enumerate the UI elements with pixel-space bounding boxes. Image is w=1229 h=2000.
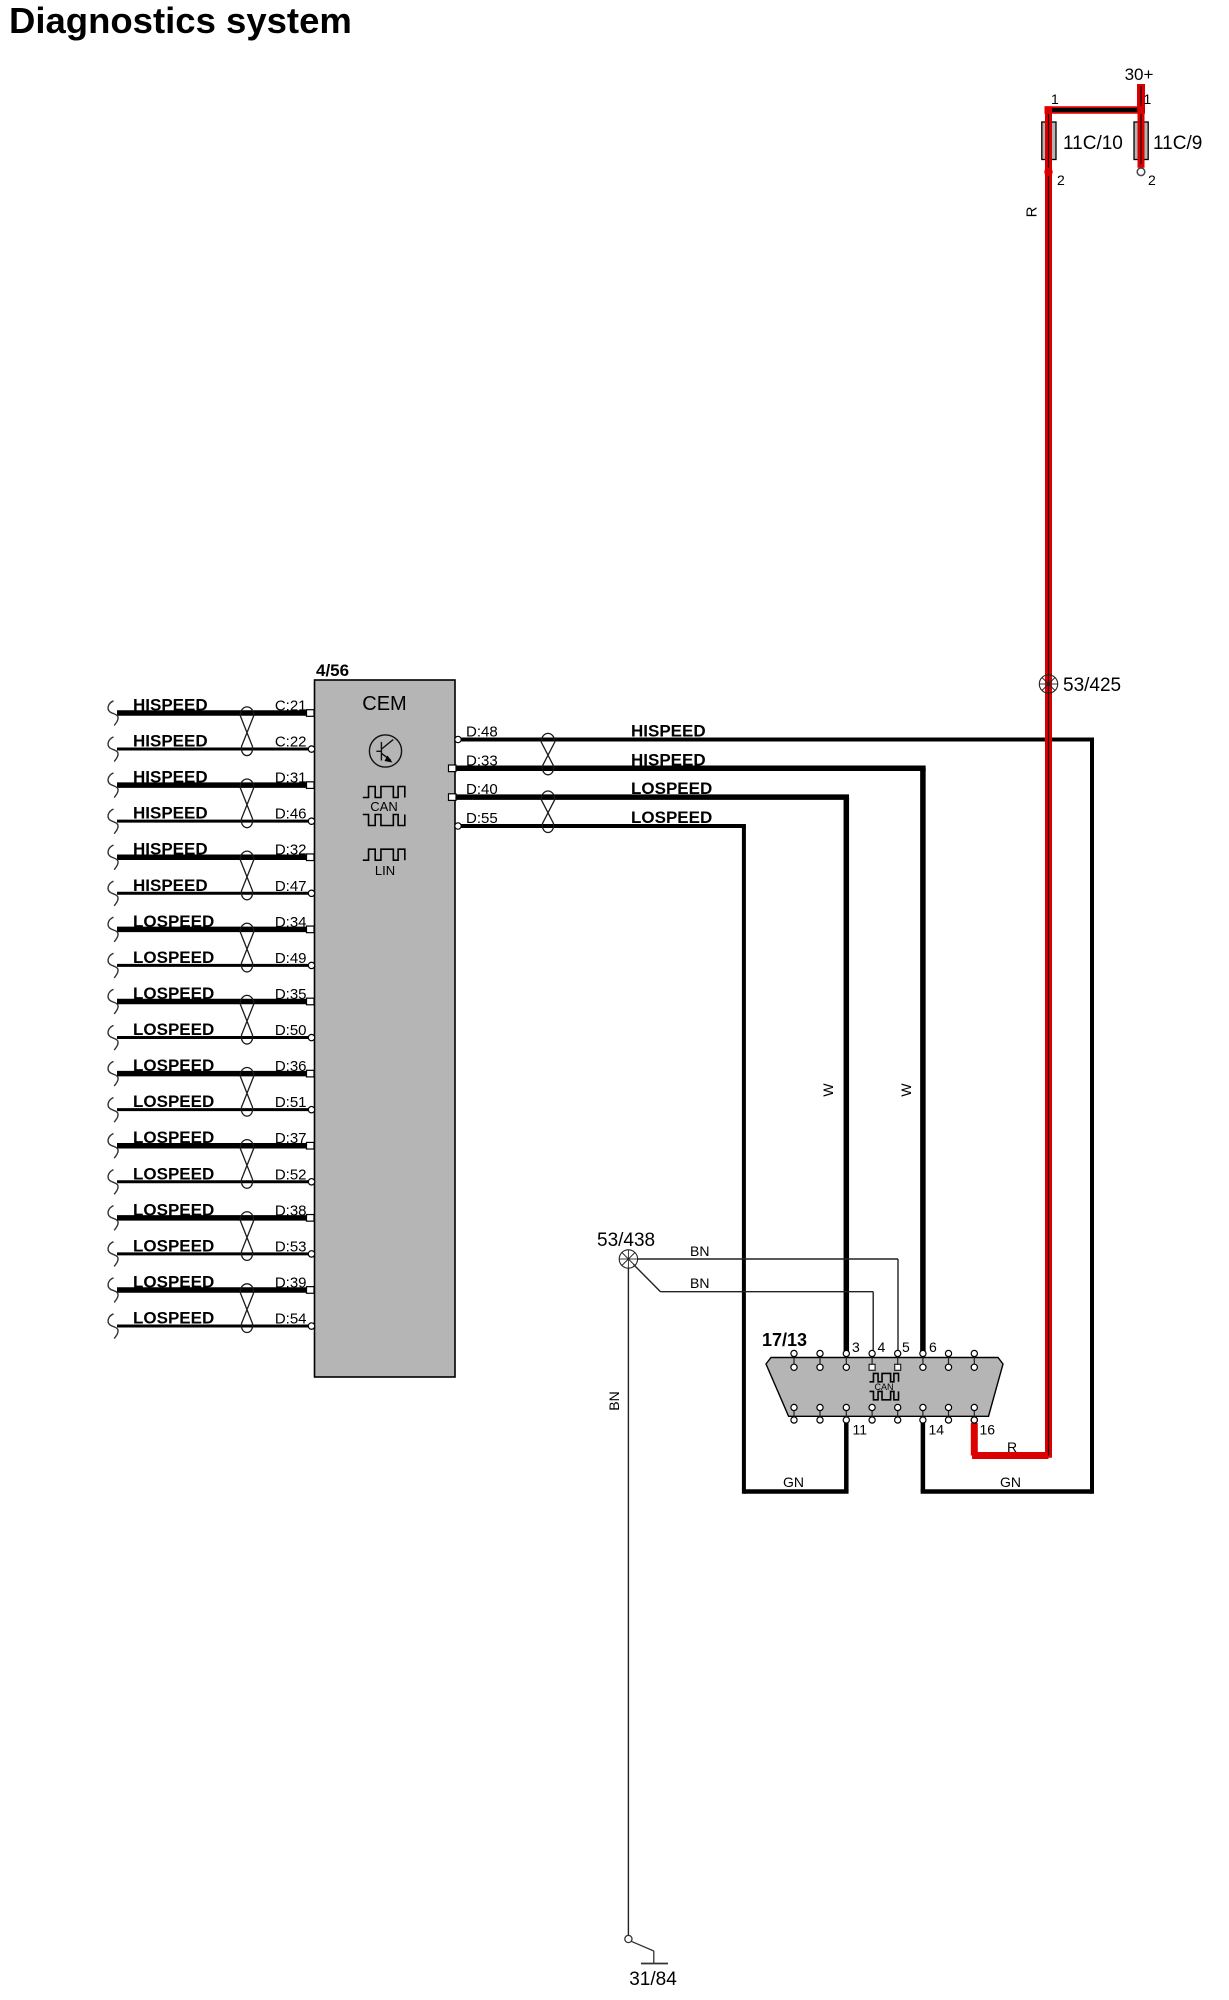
svg-text:LOSPEED: LOSPEED (133, 1164, 214, 1183)
svg-text:BN: BN (606, 1391, 622, 1410)
svg-text:HISPEED: HISPEED (133, 876, 208, 895)
svg-text:2: 2 (1148, 172, 1156, 188)
svg-text:D:48: D:48 (466, 724, 498, 741)
svg-text:HISPEED: HISPEED (133, 732, 208, 751)
svg-text:11C/10: 11C/10 (1063, 133, 1123, 154)
svg-text:HISPEED: HISPEED (133, 696, 208, 715)
svg-text:R: R (1024, 206, 1041, 217)
svg-text:CAN: CAN (370, 799, 397, 814)
svg-text:1: 1 (1051, 91, 1059, 107)
svg-text:CAN: CAN (874, 1382, 893, 1392)
svg-text:LOSPEED: LOSPEED (133, 1309, 214, 1328)
svg-text:CEM: CEM (362, 693, 406, 715)
svg-text:6: 6 (929, 1339, 937, 1355)
svg-text:GN: GN (783, 1474, 804, 1490)
svg-text:LOSPEED: LOSPEED (133, 1128, 214, 1147)
svg-text:1: 1 (1144, 91, 1152, 107)
svg-text:D:55: D:55 (466, 810, 498, 827)
svg-text:BN: BN (690, 1275, 709, 1291)
svg-text:Diagnostics system: Diagnostics system (9, 0, 352, 41)
svg-text:D:31: D:31 (275, 770, 307, 787)
svg-text:D:40: D:40 (466, 781, 498, 798)
svg-text:16: 16 (980, 1422, 996, 1438)
svg-text:HISPEED: HISPEED (631, 750, 706, 769)
svg-text:LOSPEED: LOSPEED (133, 948, 214, 967)
svg-text:LOSPEED: LOSPEED (133, 1056, 214, 1075)
svg-text:LOSPEED: LOSPEED (133, 1236, 214, 1255)
svg-text:53/425: 53/425 (1063, 675, 1121, 696)
svg-text:5: 5 (902, 1339, 910, 1355)
svg-text:D:37: D:37 (275, 1130, 307, 1147)
svg-text:C:22: C:22 (275, 734, 307, 751)
svg-text:HISPEED: HISPEED (631, 722, 706, 741)
svg-text:LIN: LIN (375, 863, 395, 878)
svg-text:3: 3 (852, 1339, 860, 1355)
svg-text:2: 2 (1057, 172, 1065, 188)
svg-text:31/84: 31/84 (629, 1969, 677, 1990)
svg-text:D:51: D:51 (275, 1094, 307, 1111)
svg-text:D:39: D:39 (275, 1274, 307, 1291)
svg-text:LOSPEED: LOSPEED (631, 779, 712, 798)
svg-text:D:34: D:34 (275, 914, 307, 931)
svg-text:D:54: D:54 (275, 1311, 307, 1328)
svg-text:53/438: 53/438 (597, 1230, 655, 1251)
svg-text:LOSPEED: LOSPEED (133, 984, 214, 1003)
svg-text:30+: 30+ (1125, 65, 1154, 84)
svg-text:LOSPEED: LOSPEED (133, 1020, 214, 1039)
svg-text:LOSPEED: LOSPEED (133, 912, 214, 931)
svg-text:11: 11 (853, 1422, 868, 1438)
svg-text:C:21: C:21 (275, 698, 307, 715)
svg-text:D:35: D:35 (275, 986, 307, 1003)
svg-text:D:46: D:46 (275, 806, 307, 823)
svg-text:HISPEED: HISPEED (133, 768, 208, 787)
svg-text:R: R (1007, 1439, 1017, 1455)
svg-text:D:38: D:38 (275, 1202, 307, 1219)
svg-text:11C/9: 11C/9 (1153, 133, 1202, 154)
svg-text:D:53: D:53 (275, 1238, 307, 1255)
svg-text:LOSPEED: LOSPEED (631, 808, 712, 827)
svg-text:BN: BN (690, 1243, 709, 1259)
svg-text:W: W (898, 1083, 914, 1097)
svg-text:LOSPEED: LOSPEED (133, 1092, 214, 1111)
svg-text:D:49: D:49 (275, 950, 307, 967)
svg-text:14: 14 (929, 1422, 945, 1438)
svg-text:D:52: D:52 (275, 1166, 307, 1183)
svg-text:17/13: 17/13 (762, 1330, 807, 1350)
svg-text:D:33: D:33 (466, 752, 498, 769)
svg-text:HISPEED: HISPEED (133, 804, 208, 823)
svg-text:4: 4 (878, 1339, 886, 1355)
svg-text:4/56: 4/56 (316, 661, 349, 680)
svg-text:GN: GN (1000, 1474, 1021, 1490)
svg-text:HISPEED: HISPEED (133, 840, 208, 859)
svg-text:D:32: D:32 (275, 842, 307, 859)
svg-text:D:47: D:47 (275, 878, 307, 895)
svg-text:W: W (820, 1083, 836, 1097)
svg-text:D:36: D:36 (275, 1058, 307, 1075)
svg-text:LOSPEED: LOSPEED (133, 1272, 214, 1291)
svg-text:LOSPEED: LOSPEED (133, 1200, 214, 1219)
svg-text:D:50: D:50 (275, 1022, 307, 1039)
